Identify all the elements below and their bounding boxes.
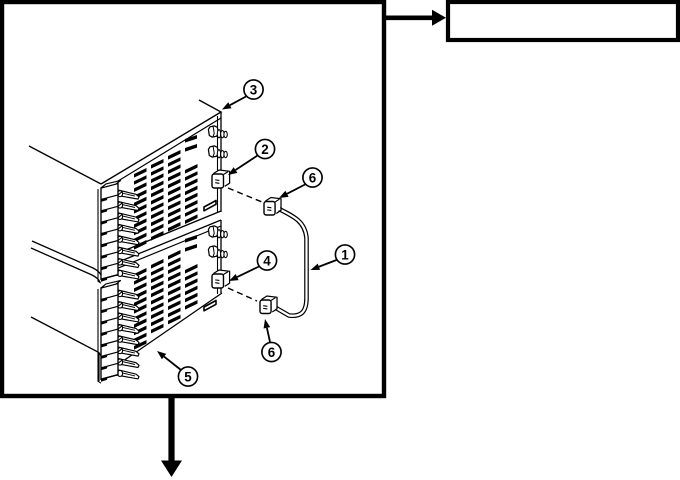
svg-text:2: 2 — [261, 142, 268, 157]
svg-text:5: 5 — [184, 369, 192, 384]
svg-text:4: 4 — [263, 253, 271, 268]
svg-text:3: 3 — [250, 82, 257, 97]
svg-text:6: 6 — [268, 345, 275, 360]
svg-text:6: 6 — [309, 170, 316, 185]
svg-text:1: 1 — [341, 247, 349, 262]
